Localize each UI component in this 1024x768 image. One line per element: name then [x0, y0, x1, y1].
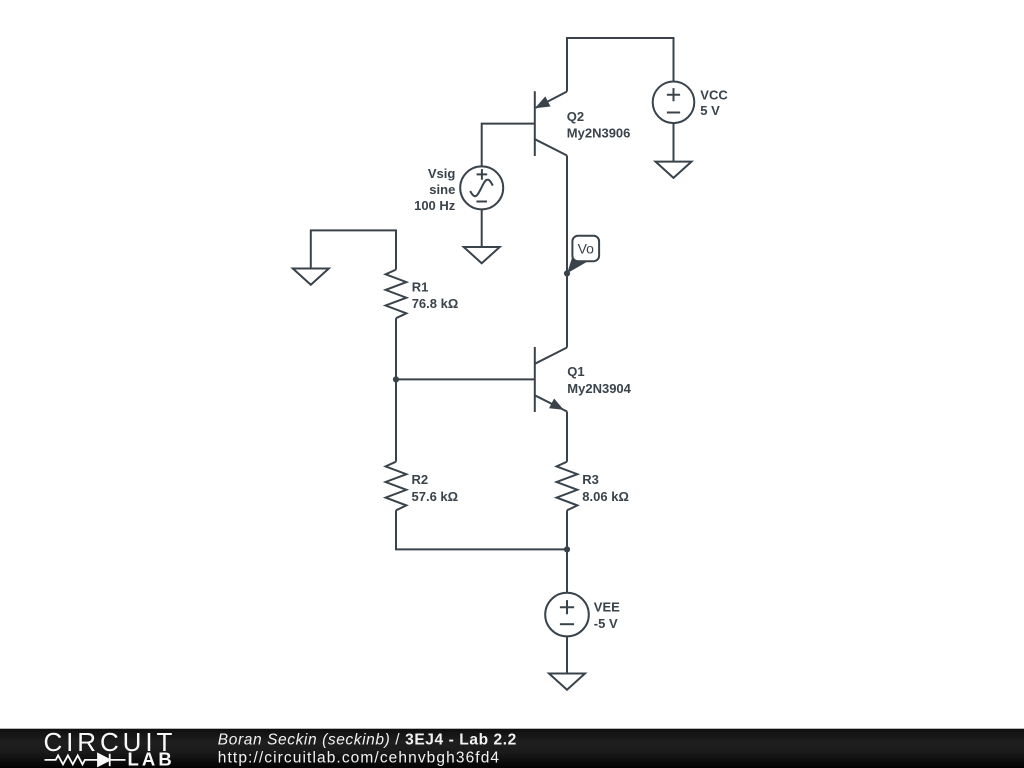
wire top: Q2 emitter to VCC+ [567, 38, 674, 92]
svg-text:5 V: 5 V [700, 103, 720, 118]
svg-text:-5 V: -5 V [594, 616, 618, 631]
transistor Q1 [535, 347, 567, 412]
svg-text:My2N3906: My2N3906 [567, 126, 631, 141]
svg-text:My2N3904: My2N3904 [567, 381, 631, 396]
voltage source VEE [545, 593, 589, 637]
wire: Q2 base to Vsig+ [482, 124, 535, 167]
wire: Q2 collector to Q1 collector (Vo net) [566, 156, 568, 348]
svg-text:57.6 kΩ: 57.6 kΩ [412, 489, 459, 504]
svg-text:Q1: Q1 [567, 364, 584, 379]
voltage source Vsig [460, 166, 503, 209]
ground (left branch) [293, 269, 329, 285]
node: Q1 base / R1 / R2 junction [393, 376, 399, 382]
wire: left ground branch to R1 top [311, 230, 396, 269]
svg-text:Q2: Q2 [567, 109, 584, 124]
wire: base node to Q1 base [396, 378, 535, 380]
wire: base node to R2 top [395, 379, 397, 461]
wire: Q1 emitter to R3 top [566, 412, 568, 462]
svg-text:LAB: LAB [128, 749, 175, 768]
resistor R2 [386, 462, 407, 511]
svg-text:sine: sine [429, 182, 455, 197]
node: bottom junction R2/R3/VEE [564, 546, 570, 552]
wire: Vsig- to ground [481, 209, 483, 247]
resistor R1 [386, 270, 407, 319]
wire: junction to VEE+ [566, 549, 568, 592]
svg-text:R2: R2 [412, 472, 429, 487]
svg-text:Vsig: Vsig [428, 166, 456, 181]
node Vo dot [564, 270, 570, 276]
footer bar [0, 729, 1024, 768]
wire: VEE- to ground [566, 636, 568, 673]
ground (VEE) [549, 674, 585, 690]
svg-text:76.8 kΩ: 76.8 kΩ [412, 296, 459, 311]
svg-text:VEE: VEE [594, 599, 620, 614]
transistor Q2 [535, 91, 567, 156]
svg-text:100 Hz: 100 Hz [414, 198, 456, 213]
svg-text:R3: R3 [582, 472, 599, 487]
svg-text:http://circuitlab.com/cehnvbgh: http://circuitlab.com/cehnvbgh36fd4 [218, 749, 500, 766]
wire: R2 bottom to bottom junction [396, 510, 567, 549]
svg-text:VCC: VCC [700, 87, 728, 102]
ground (VCC) [656, 162, 692, 178]
svg-text:Boran Seckin (seckinb) / 3EJ4: Boran Seckin (seckinb) / 3EJ4 - Lab 2.2 [218, 731, 517, 748]
svg-text:Vo: Vo [578, 241, 595, 257]
node label Vo flag [567, 236, 599, 273]
wire: VCC- to ground [673, 123, 675, 162]
svg-text:8.06 kΩ: 8.06 kΩ [582, 489, 629, 504]
voltage source VCC [653, 82, 695, 124]
wire: R1 bottom to base node [395, 318, 397, 379]
logo resistor-diode glyph [45, 754, 126, 766]
wire: R3 bottom to bottom junction [566, 510, 568, 549]
ground (Vsig) [464, 247, 500, 263]
resistor R3 [557, 462, 578, 511]
svg-text:R1: R1 [412, 279, 429, 294]
